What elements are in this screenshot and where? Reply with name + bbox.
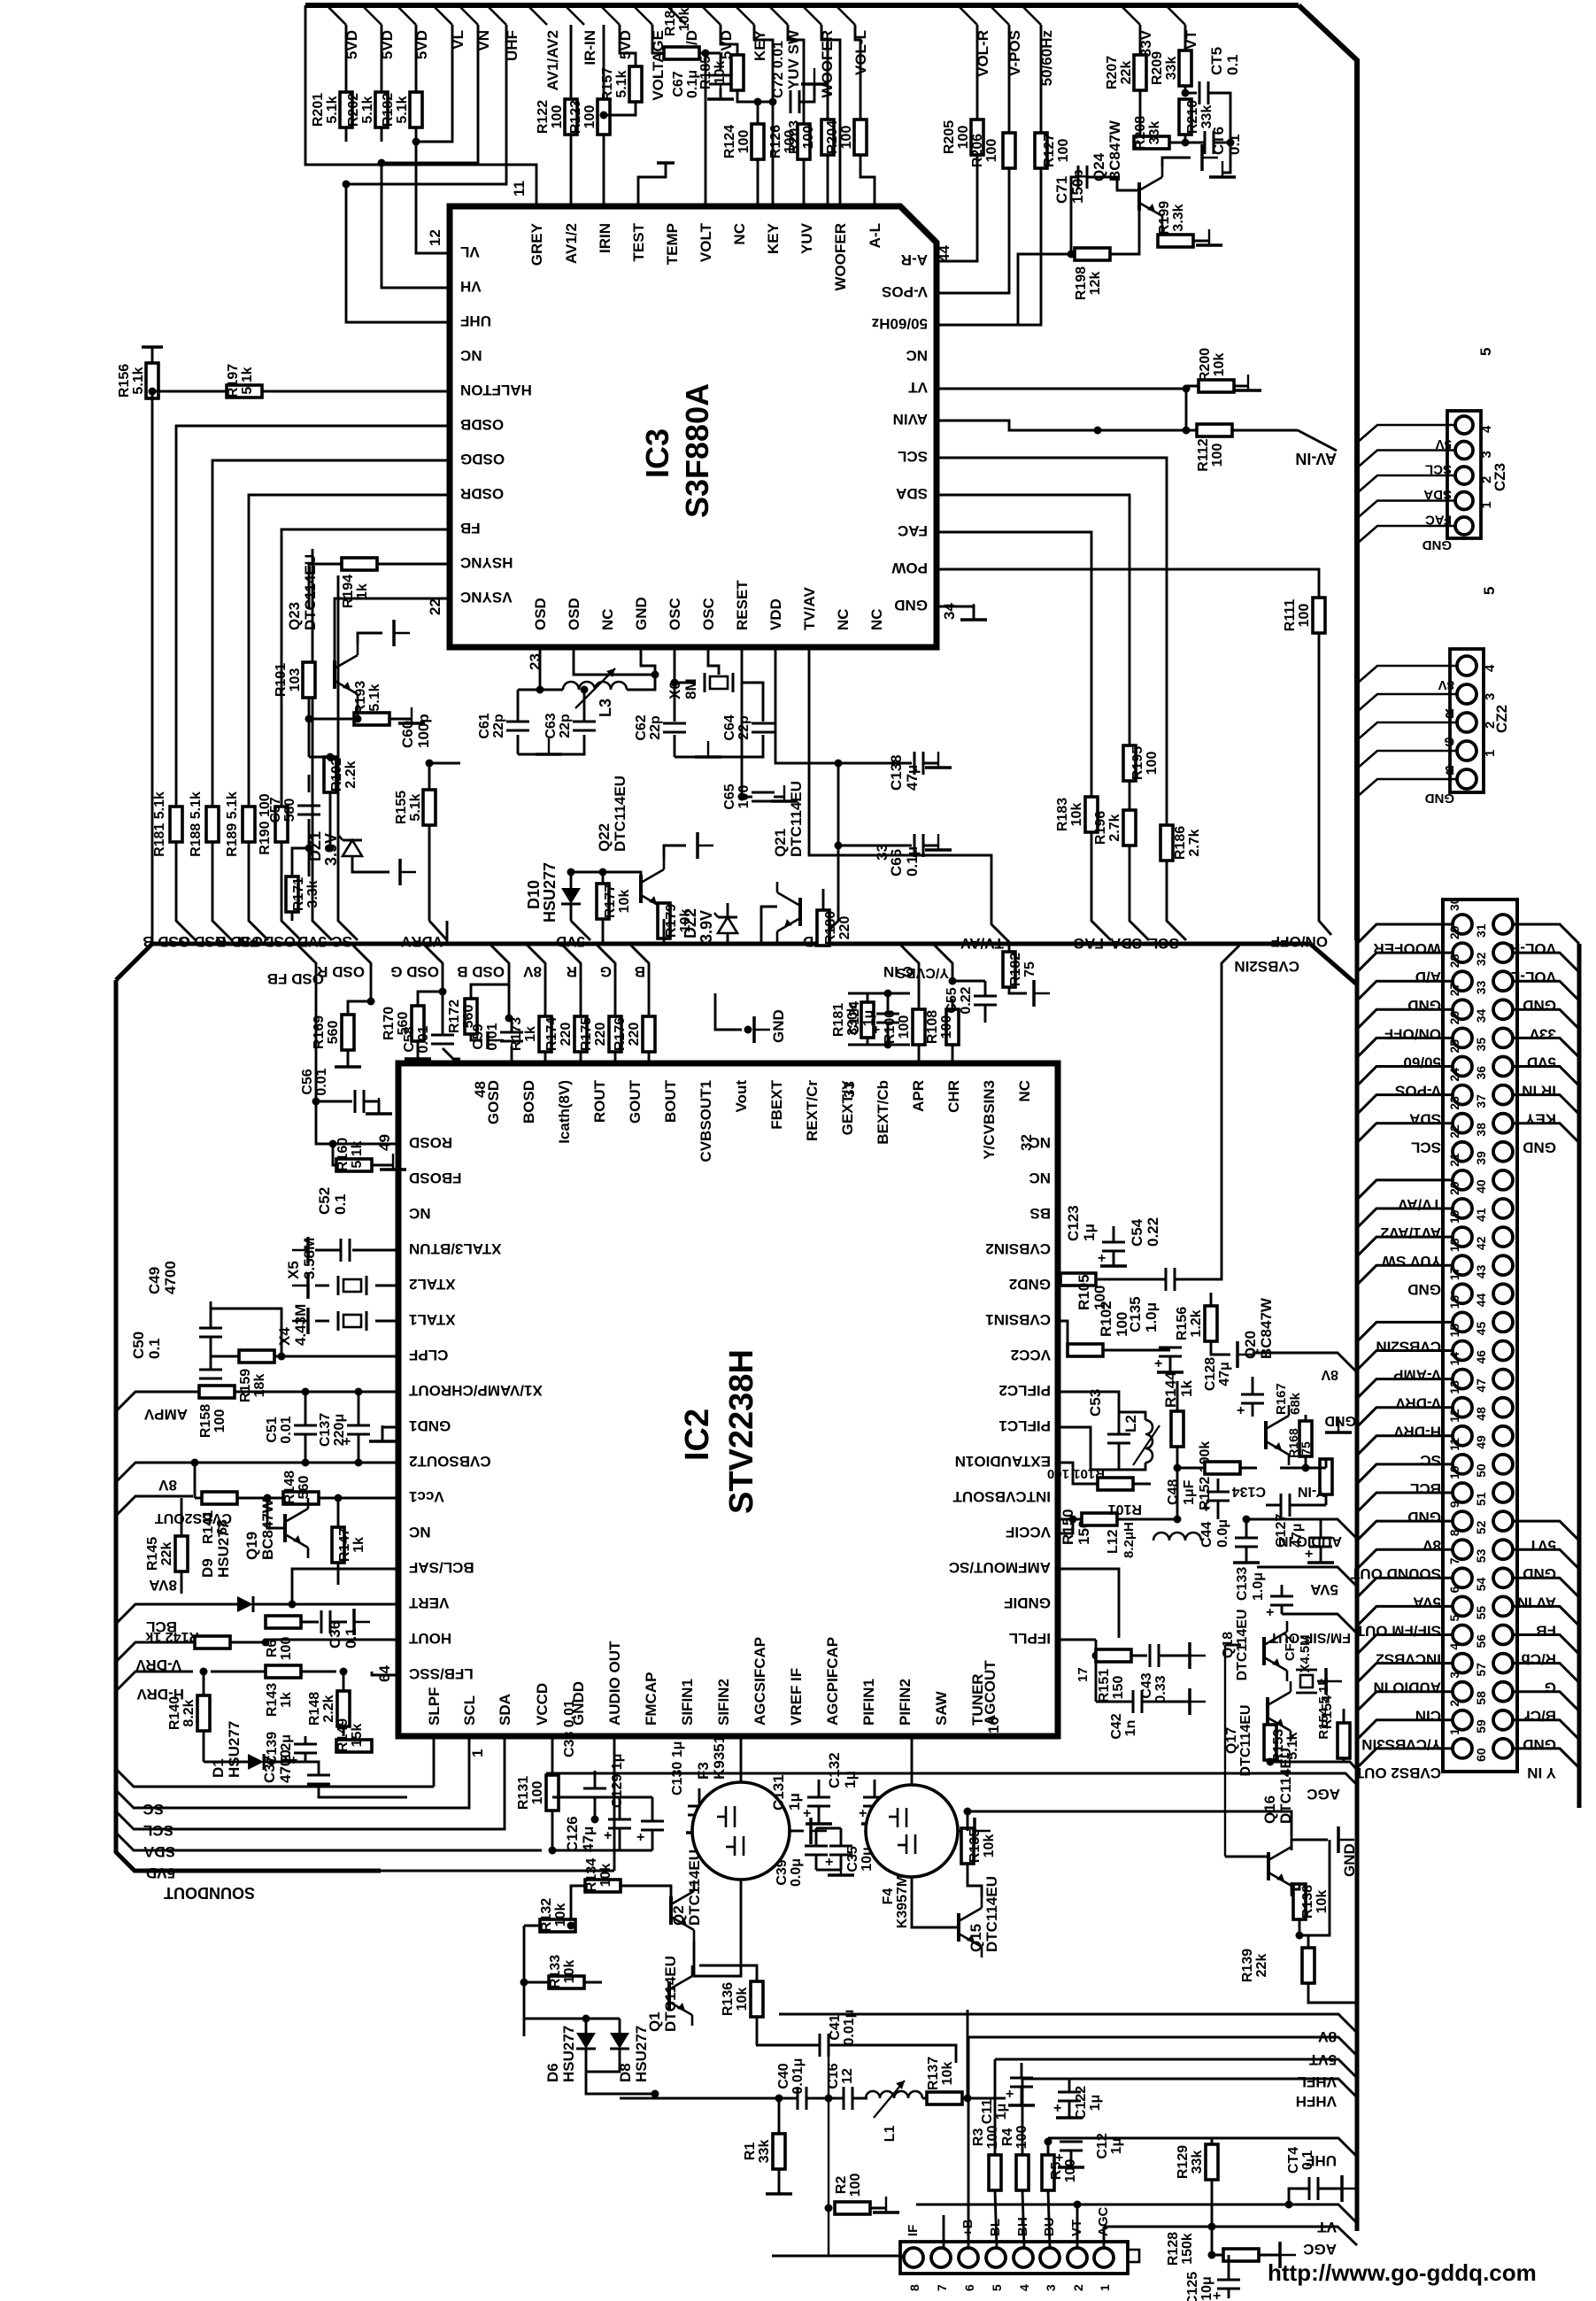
wire top bus stub 5VD bbox=[701, 5, 721, 25]
svg-text:12k: 12k bbox=[1088, 272, 1103, 296]
svg-text:6: 6 bbox=[1447, 1586, 1461, 1593]
wire CN1 pin 7 to bus, net 5VA bbox=[1357, 1578, 1453, 1597]
connector CN1 pin 37 hole bbox=[1493, 1085, 1513, 1105]
svg-text:103: 103 bbox=[288, 668, 303, 692]
wire UHF run y=2415 bbox=[1048, 2138, 1357, 2157]
svg-text:F4: F4 bbox=[881, 1888, 896, 1905]
capacitor C63 22p bbox=[573, 721, 596, 723]
wire R entry below border bbox=[561, 944, 581, 1016]
connector CN1 pin 11 hole bbox=[1453, 1455, 1472, 1474]
svg-text:R101: R101 bbox=[1108, 1502, 1142, 1517]
svg-text:33k: 33k bbox=[1199, 105, 1214, 129]
svg-text:R1: R1 bbox=[743, 2143, 758, 2161]
resistor R105 100 bbox=[1060, 1273, 1096, 1286]
svg-text:H-DRV: H-DRV bbox=[1393, 1424, 1441, 1440]
svg-text:C134: C134 bbox=[1232, 1484, 1266, 1499]
svg-text:R/Cb: R/Cb bbox=[1521, 1651, 1556, 1668]
connector CN1 pin 19 hole bbox=[1453, 1227, 1472, 1247]
resistor R6 100 bbox=[266, 1616, 301, 1628]
svg-text:NC: NC bbox=[460, 347, 482, 364]
wire CN1 pin 59 to right bus, net GND bbox=[1513, 1720, 1579, 1740]
svg-text:4700: 4700 bbox=[162, 1261, 179, 1294]
wire BCL/SAF pin bbox=[292, 1569, 398, 1604]
wire FAC net to border bbox=[937, 532, 1111, 940]
svg-text:AMPV: AMPV bbox=[143, 1406, 188, 1423]
svg-text:R209: R209 bbox=[1150, 51, 1165, 85]
wire SC column to border bbox=[338, 575, 358, 940]
resistor R201 5.1k bbox=[345, 25, 348, 92]
svg-text:10k: 10k bbox=[735, 1988, 750, 2011]
resistor R172 560 bbox=[471, 984, 509, 999]
wire CN1 pin 14 to bus, net V-DRV bbox=[1357, 1379, 1453, 1399]
connector CZ3 pin 5V hole bbox=[1455, 416, 1473, 434]
svg-text:C39: C39 bbox=[775, 1859, 790, 1885]
resistor R202 5.1k bbox=[381, 25, 383, 92]
svg-text:CVBS2 OUT: CVBS2 OUT bbox=[1354, 1764, 1441, 1781]
svg-text:RESET: RESET bbox=[734, 580, 751, 630]
svg-text:X4: X4 bbox=[276, 1327, 293, 1346]
wire CN1 pin 35 to right bus, net 5VD bbox=[1513, 1038, 1579, 1057]
svg-text:50/60Hz: 50/60Hz bbox=[872, 315, 928, 332]
svg-text:SAW: SAW bbox=[933, 1690, 950, 1726]
svg-text:4: 4 bbox=[1483, 664, 1498, 672]
svg-text:G: G bbox=[1545, 1679, 1556, 1696]
resistor R136 10k bbox=[751, 1981, 763, 2017]
svg-text:0.01: 0.01 bbox=[279, 1416, 294, 1443]
connector CN1 pin 13 hole bbox=[1453, 1398, 1472, 1417]
svg-text:2: 2 bbox=[1071, 2284, 1085, 2291]
wire IFPLL stub bbox=[1058, 1639, 1096, 1641]
wire R153/R154 bottom rail bbox=[1270, 1762, 1357, 1770]
svg-text:R192: R192 bbox=[329, 758, 344, 791]
svg-text:32: 32 bbox=[1018, 1134, 1035, 1151]
svg-text:33: 33 bbox=[1474, 980, 1488, 994]
wire left vertical border bbox=[116, 980, 381, 1871]
svg-text:0.1: 0.1 bbox=[343, 1627, 359, 1649]
svg-text:10: 10 bbox=[1447, 1465, 1461, 1479]
svg-text:R194: R194 bbox=[341, 575, 356, 608]
svg-text:C66: C66 bbox=[888, 849, 905, 876]
svg-text:FB: FB bbox=[1536, 1622, 1556, 1639]
svg-text:C126: C126 bbox=[564, 1816, 581, 1852]
wire CN1 pin 26 to bus, net 50/60 bbox=[1357, 1038, 1453, 1057]
svg-text:PIFIN1: PIFIN1 bbox=[860, 1679, 877, 1726]
svg-text:R138: R138 bbox=[1300, 1885, 1315, 1919]
svg-text:50: 50 bbox=[1474, 1463, 1488, 1478]
svg-text:0.01: 0.01 bbox=[314, 1068, 329, 1095]
svg-text:36: 36 bbox=[1474, 1066, 1488, 1080]
svg-text:12: 12 bbox=[427, 229, 443, 246]
resistor R5 100 bbox=[1042, 2155, 1054, 2190]
resistor R195 100 bbox=[1123, 745, 1136, 781]
svg-text:R186: R186 bbox=[1173, 826, 1188, 860]
svg-text:Q16: Q16 bbox=[1261, 1795, 1278, 1824]
svg-text:OSD: OSD bbox=[532, 598, 549, 630]
svg-text:TEMP: TEMP bbox=[664, 223, 681, 265]
svg-text:16: 16 bbox=[985, 1717, 1002, 1733]
wire CVBSOUT2 / 8V rail bbox=[116, 1463, 398, 1482]
svg-text:IF: IF bbox=[906, 2225, 921, 2236]
wire CN1 pin 19 to bus, net YUV SW bbox=[1357, 1237, 1453, 1256]
svg-text:http://www.go-gddq.com: http://www.go-gddq.com bbox=[1268, 2259, 1537, 2286]
svg-text:V-DRV: V-DRV bbox=[1395, 1395, 1441, 1412]
wire Q18 base column bbox=[1224, 1645, 1226, 1857]
svg-text:+: + bbox=[1213, 2289, 1221, 2301]
capacitor C67 0.1u bbox=[720, 53, 722, 71]
svg-text:D9: D9 bbox=[199, 1558, 216, 1578]
svg-text:AMFMOUT/SC: AMFMOUT/SC bbox=[949, 1559, 1051, 1576]
connector CN1 pin 60 hole bbox=[1493, 1739, 1513, 1758]
svg-text:CT4: CT4 bbox=[1286, 2147, 1301, 2174]
resistor R135 10k bbox=[961, 1828, 974, 1864]
svg-text:C131: C131 bbox=[770, 1774, 787, 1811]
wire tuner IF line bbox=[772, 2255, 905, 2258]
wire top bus stub KEY bbox=[735, 5, 754, 25]
svg-text:R197: R197 bbox=[226, 364, 241, 398]
svg-text:18k: 18k bbox=[252, 1374, 267, 1398]
svg-text:10k: 10k bbox=[617, 890, 632, 914]
resistor R143 1k bbox=[266, 1665, 301, 1678]
wire CN1 pin 4 to bus, net AUDIO IN bbox=[1357, 1664, 1453, 1683]
svg-text:C12: C12 bbox=[1095, 2133, 1110, 2158]
wire CN1 pin 27 to bus, net ON/OFF bbox=[1357, 1009, 1453, 1029]
wire CN1 pin 55 to right bus, net FB bbox=[1513, 1606, 1579, 1625]
svg-text:R139: R139 bbox=[1240, 1949, 1255, 1982]
svg-text:100: 100 bbox=[550, 105, 565, 129]
connector CZ3 pin SCL hole bbox=[1455, 442, 1473, 459]
wire SC horizontal bbox=[116, 1769, 434, 1787]
svg-text:R124: R124 bbox=[722, 125, 737, 158]
svg-text:SC: SC bbox=[331, 933, 352, 950]
svg-text:Vout: Vout bbox=[733, 1080, 750, 1113]
connector CZ2 pin G hole bbox=[1457, 713, 1476, 732]
wire LFB/SSC pin bbox=[372, 1672, 398, 1675]
svg-text:CT5: CT5 bbox=[1208, 47, 1225, 75]
wire SDA horizontal bbox=[116, 1736, 505, 1829]
svg-text:22: 22 bbox=[427, 598, 443, 615]
capacitor C66 0.1u bbox=[835, 842, 843, 850]
svg-text:C44: C44 bbox=[1199, 1522, 1214, 1548]
svg-text:GND: GND bbox=[1407, 1509, 1441, 1525]
capacitor C51 0.01 bbox=[302, 1388, 310, 1396]
wire top bus stub YUV SW bbox=[768, 5, 788, 25]
svg-text:R200: R200 bbox=[1198, 348, 1213, 382]
op-amp U-IC3 S3F880A microcontroller box bbox=[450, 206, 937, 647]
svg-text:1.2k: 1.2k bbox=[1189, 1309, 1204, 1337]
svg-text:1μF: 1μF bbox=[1182, 1479, 1197, 1505]
svg-text:GND: GND bbox=[1324, 1413, 1356, 1428]
svg-text:IR-IN: IR-IN bbox=[582, 30, 598, 66]
svg-text:16: 16 bbox=[1447, 1295, 1461, 1309]
resistor R179 10k bbox=[658, 903, 670, 938]
svg-text:C62: C62 bbox=[634, 714, 649, 740]
svg-text:R3: R3 bbox=[971, 2128, 986, 2147]
wire CZ3 5V stub bbox=[1357, 425, 1455, 443]
svg-text:CLPF: CLPF bbox=[409, 1347, 448, 1363]
capacitor C72 0.01 bbox=[790, 90, 792, 113]
connector CN1 pin 10 hole bbox=[1453, 1483, 1472, 1502]
svg-text:60: 60 bbox=[1474, 1748, 1488, 1762]
connector CZ2 pin 8V hole bbox=[1457, 656, 1476, 676]
svg-text:7: 7 bbox=[935, 2284, 949, 2291]
svg-text:3.9V: 3.9V bbox=[698, 910, 715, 943]
wire OSD G below border bbox=[423, 944, 443, 992]
svg-text:REXT/Cr: REXT/Cr bbox=[804, 1080, 821, 1141]
svg-text:R172: R172 bbox=[447, 1000, 462, 1033]
svg-text:5VD: 5VD bbox=[1527, 1054, 1556, 1070]
wire CZ3 GND stub bbox=[1357, 526, 1455, 544]
resistor R188 5.1k bbox=[206, 807, 219, 842]
svg-text:+: + bbox=[1053, 2101, 1061, 2116]
wire net VL bbox=[416, 25, 452, 142]
svg-text:IC2: IC2 bbox=[679, 1409, 716, 1461]
wire 5VD horizontal bbox=[116, 1833, 542, 1850]
wire 5VD entry left-mid bbox=[571, 921, 590, 940]
svg-text:C61: C61 bbox=[477, 713, 492, 738]
wire V-DRV entry bbox=[116, 1642, 193, 1662]
svg-text:100: 100 bbox=[530, 1781, 545, 1805]
svg-text:VOL-R: VOL-R bbox=[1509, 940, 1556, 957]
wire CN1 pin 2 to bus, net Y/CVBS3IN bbox=[1357, 1720, 1453, 1740]
svg-text:39: 39 bbox=[1474, 1151, 1488, 1165]
svg-text:5.1k: 5.1k bbox=[367, 683, 382, 711]
wire OSD B below border bbox=[490, 944, 509, 1018]
svg-text:Vcc1: Vcc1 bbox=[409, 1488, 444, 1505]
svg-text:10k: 10k bbox=[677, 8, 692, 32]
svg-text:R135: R135 bbox=[968, 1829, 983, 1863]
svg-text:48: 48 bbox=[472, 1081, 489, 1098]
svg-text:8V: 8V bbox=[523, 963, 542, 980]
connector CZ3 pin SDA hole bbox=[1455, 467, 1473, 484]
wire CN1 pin 37 to right bus, net KEY bbox=[1513, 1095, 1579, 1115]
connector CN1 pin 28 hole bbox=[1453, 971, 1472, 991]
svg-text:AV1/2: AV1/2 bbox=[563, 223, 580, 264]
resistor R124 100 bbox=[757, 102, 759, 124]
svg-text:51: 51 bbox=[1474, 1492, 1488, 1506]
svg-text:22p: 22p bbox=[558, 714, 573, 738]
wire CN1 pin 20 to bus, net AV1/AV2 bbox=[1357, 1208, 1453, 1228]
svg-text:BOSD: BOSD bbox=[520, 1080, 537, 1123]
svg-text:AV1/AV2: AV1/AV2 bbox=[544, 30, 561, 90]
svg-text:Q22: Q22 bbox=[596, 823, 613, 852]
svg-text:R181: R181 bbox=[831, 1003, 846, 1037]
wire CN1 pin 54 to right bus, net AV IN bbox=[1513, 1578, 1579, 1597]
svg-text:100: 100 bbox=[984, 139, 999, 163]
wire CN1 pin 18 to bus, net GND bbox=[1357, 1265, 1453, 1285]
svg-text:R132: R132 bbox=[539, 1898, 554, 1932]
svg-text:Icath(8V): Icath(8V) bbox=[556, 1080, 573, 1144]
resistor R191 103 bbox=[303, 662, 315, 698]
wire CN1 pin 5 to bus, net INCVBS2 bbox=[1357, 1635, 1453, 1655]
svg-text:R207: R207 bbox=[1105, 56, 1120, 89]
wire CN1 pin 1 to bus, net CVBS2 OUT bbox=[1357, 1749, 1453, 1768]
svg-text:OSD FB: OSD FB bbox=[267, 970, 324, 987]
svg-text:UHF: UHF bbox=[460, 313, 491, 329]
svg-text:32: 32 bbox=[1474, 952, 1488, 966]
svg-text:R154 5.1k: R154 5.1k bbox=[1316, 1678, 1331, 1740]
svg-text:CT6: CT6 bbox=[1210, 127, 1227, 155]
svg-text:3: 3 bbox=[1044, 2284, 1058, 2291]
svg-text:3: 3 bbox=[1483, 693, 1498, 700]
svg-text:IFPLL: IFPLL bbox=[1009, 1630, 1051, 1647]
svg-text:A-R: A-R bbox=[901, 251, 928, 268]
svg-text:SIF/FM OUT: SIF/FM OUT bbox=[1355, 1622, 1441, 1639]
resistor R132 10k bbox=[540, 1919, 575, 1932]
wire PIFLC1 stub bbox=[1058, 1427, 1119, 1470]
svg-text:V-AMP: V-AMP bbox=[1393, 1367, 1441, 1384]
svg-text:10k: 10k bbox=[553, 1903, 568, 1927]
svg-text:R196: R196 bbox=[1093, 811, 1108, 845]
svg-text:30: 30 bbox=[1447, 897, 1461, 911]
svg-text:C48: C48 bbox=[1166, 1479, 1181, 1505]
svg-text:560: 560 bbox=[326, 1021, 341, 1045]
connector CN1 pin 46 hole bbox=[1493, 1341, 1513, 1361]
svg-text:GND: GND bbox=[633, 597, 650, 630]
svg-text:FM/SIF-OUT: FM/SIF-OUT bbox=[1269, 1630, 1351, 1645]
ground for C65 bbox=[771, 799, 798, 803]
svg-text:47μ: 47μ bbox=[1217, 1362, 1232, 1386]
wire soundout vertical to AUDIO OUT bbox=[613, 1736, 616, 1871]
resistor R1 33k bbox=[773, 2134, 785, 2169]
svg-text:R180: R180 bbox=[823, 911, 838, 945]
svg-text:AUDIO IN: AUDIO IN bbox=[1278, 1533, 1342, 1548]
svg-text:220: 220 bbox=[627, 1023, 642, 1046]
svg-text:R157: R157 bbox=[600, 67, 615, 101]
wire CZ3 SDA stub bbox=[1357, 475, 1455, 493]
svg-text:NC: NC bbox=[1016, 1080, 1033, 1102]
svg-text:AGCPIFCAP: AGCPIFCAP bbox=[824, 1637, 841, 1726]
svg-text:33V: 33V bbox=[1529, 1025, 1556, 1042]
ground for R193 bbox=[398, 722, 425, 725]
svg-text:R188 5.1k: R188 5.1k bbox=[189, 791, 204, 857]
capacitor C36 0.1 bbox=[320, 1610, 323, 1633]
wire right outer bus bbox=[1577, 944, 1582, 1808]
svg-text:OSC: OSC bbox=[700, 598, 717, 630]
capacitor C64 22p bbox=[752, 722, 775, 725]
wire TV/AV net down to border bbox=[809, 647, 1011, 944]
svg-text:C54: C54 bbox=[1129, 1218, 1145, 1247]
svg-text:A-L: A-L bbox=[867, 223, 883, 248]
connector CZ3 pin GND hole bbox=[1455, 517, 1473, 535]
svg-text:0.0μ: 0.0μ bbox=[789, 1858, 804, 1887]
connector CN1 pin 34 hole bbox=[1493, 1000, 1513, 1019]
svg-text:OSDG: OSDG bbox=[460, 451, 505, 467]
svg-text:CVBS2IN: CVBS2IN bbox=[1234, 958, 1299, 975]
resistor R123 100 bbox=[603, 25, 605, 99]
svg-text:GNDIF: GNDIF bbox=[1004, 1594, 1051, 1611]
svg-text:0.1: 0.1 bbox=[332, 1193, 349, 1215]
wire CZ2 GND stub bbox=[1357, 779, 1457, 797]
wire CN1 pin 33 to right bus, net GND bbox=[1513, 981, 1579, 1000]
capacitor C55 0.22 bbox=[952, 980, 985, 983]
wire top bus stub AV1/AV2 bbox=[528, 5, 547, 25]
connector tuner pin 6 hole bbox=[959, 2248, 978, 2267]
resistor R199 3.3k bbox=[1158, 227, 1162, 241]
svg-text:LFB/SSC: LFB/SSC bbox=[409, 1665, 474, 1682]
svg-text:100: 100 bbox=[839, 126, 854, 150]
svg-text:22k: 22k bbox=[159, 1542, 174, 1566]
wire C39/C35 rail bbox=[816, 1827, 841, 1830]
svg-text:ROSD: ROSD bbox=[409, 1134, 452, 1151]
svg-text:FMCAP: FMCAP bbox=[643, 1672, 659, 1726]
wire tuner AGC stub bbox=[1103, 2227, 1106, 2248]
resistor R133 10k bbox=[549, 1976, 584, 1988]
wire 5VT run y=2301 bbox=[968, 2037, 1357, 2056]
svg-text:8.2μH: 8.2μH bbox=[1122, 1522, 1137, 1558]
connector CN1 pin 3 hole bbox=[1453, 1682, 1472, 1702]
svg-text:75: 75 bbox=[1299, 1441, 1313, 1455]
svg-text:C35: C35 bbox=[845, 1846, 860, 1872]
svg-text:GND: GND bbox=[1407, 997, 1441, 1014]
svg-text:BCL/SAF: BCL/SAF bbox=[409, 1559, 474, 1576]
svg-text:34: 34 bbox=[941, 603, 958, 620]
svg-text:22k: 22k bbox=[1254, 1954, 1269, 1978]
svg-text:R5: R5 bbox=[1049, 2162, 1064, 2181]
svg-text:75: 75 bbox=[1022, 961, 1037, 977]
wire CN1 pin 23 to bus, net SCL bbox=[1357, 1123, 1453, 1143]
svg-text:34: 34 bbox=[1474, 1009, 1488, 1023]
svg-text:10k: 10k bbox=[562, 1960, 577, 1984]
connector CN1 pin 8 hole bbox=[1453, 1540, 1472, 1559]
svg-text:VDRV: VDRV bbox=[400, 933, 443, 950]
svg-text:R111: R111 bbox=[1283, 599, 1298, 632]
resistor R108 100 bbox=[946, 1009, 959, 1045]
svg-text:L12: L12 bbox=[1106, 1529, 1121, 1554]
connector CZ2 box bbox=[1450, 649, 1484, 792]
svg-text:Q17: Q17 bbox=[1224, 1727, 1239, 1754]
connector CN1 pin 5 hole bbox=[1453, 1625, 1472, 1645]
svg-text:5.1k: 5.1k bbox=[408, 793, 423, 821]
svg-text:XTAL3/BTUN: XTAL3/BTUN bbox=[409, 1240, 502, 1257]
connector CZ2 pin R hole bbox=[1457, 684, 1476, 704]
svg-text:9: 9 bbox=[1447, 1501, 1461, 1508]
resistor R182 5.1k bbox=[415, 25, 418, 92]
wire CVBS2IN entry to border bbox=[1222, 946, 1239, 965]
resistor R207 22k bbox=[1139, 25, 1142, 55]
resistor R129 33k bbox=[1206, 2144, 1218, 2180]
resistor R137 10k bbox=[927, 2092, 962, 2104]
svg-text:24: 24 bbox=[1447, 1068, 1461, 1082]
svg-text:C36: C36 bbox=[327, 1621, 343, 1649]
svg-text:VCCD: VCCD bbox=[534, 1683, 551, 1726]
svg-text:X5: X5 bbox=[285, 1261, 302, 1279]
connector CN1 pin 12 hole bbox=[1453, 1426, 1472, 1446]
wire CN1 pin 15 to bus, net V-AMP bbox=[1357, 1351, 1453, 1371]
wire AMFMOUT stub bbox=[1058, 1569, 1119, 1638]
svg-text:VCC2: VCC2 bbox=[1011, 1347, 1051, 1363]
svg-text:R142 1k: R142 1k bbox=[145, 1629, 199, 1644]
svg-text:R137: R137 bbox=[926, 2057, 941, 2090]
svg-text:1μ: 1μ bbox=[1081, 1224, 1098, 1241]
svg-text:CVBSIN2: CVBSIN2 bbox=[985, 1240, 1051, 1257]
ground for R182 bbox=[1032, 980, 1036, 1007]
resistor R147 1k bbox=[332, 1527, 344, 1563]
connector CN1 pin 27 hole bbox=[1453, 1000, 1472, 1019]
resistor R3 100 bbox=[989, 2155, 1001, 2190]
wire VT run y=2490 bbox=[916, 2204, 1357, 2223]
svg-text:GND2: GND2 bbox=[1009, 1276, 1051, 1293]
svg-text:33k: 33k bbox=[1164, 57, 1179, 81]
svg-text:HSU277: HSU277 bbox=[226, 1721, 243, 1778]
connector CN1 pin 57 hole bbox=[1493, 1654, 1513, 1673]
svg-text:560: 560 bbox=[297, 1476, 312, 1500]
svg-text:VDD: VDD bbox=[767, 598, 784, 630]
svg-text:NC: NC bbox=[868, 608, 885, 630]
wire OSD R from IC3 pin bbox=[249, 495, 450, 807]
svg-text:BL: BL bbox=[988, 2219, 1003, 2236]
svg-text:R158: R158 bbox=[198, 1404, 213, 1438]
svg-text:1: 1 bbox=[1479, 501, 1494, 508]
